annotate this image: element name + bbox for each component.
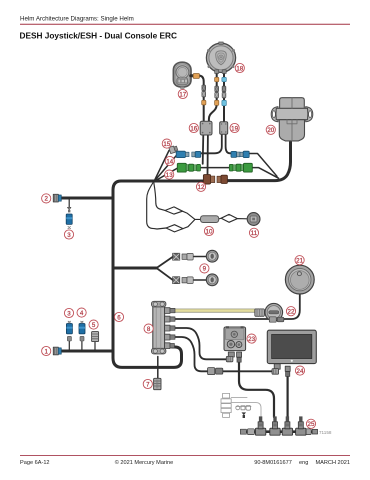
speaker upper connector pieces <box>173 253 194 260</box>
wire fuse 4 lower drop <box>81 342 83 352</box>
trackpad right cable inline connector <box>222 86 226 98</box>
svg-text:16: 16 <box>190 125 197 132</box>
wire splitter 16 bottom leads <box>203 135 208 175</box>
speaker lower connector pieces <box>173 277 194 284</box>
blue connector pair left (row 14) <box>176 151 201 157</box>
svg-text:24: 24 <box>297 368 304 375</box>
callout 12 <box>196 182 205 191</box>
wire branch to speakers <box>113 267 157 270</box>
trackpad left cable orange band lower <box>215 100 219 105</box>
wire thin loop A to diamond 1 <box>154 183 165 211</box>
svg-text:22: 22 <box>288 309 295 316</box>
joystick 17 <box>173 62 191 88</box>
gauge 21 <box>285 265 314 294</box>
junction box port 1 <box>165 308 175 314</box>
connector 5 <box>92 332 99 342</box>
wire yellow network cable <box>175 309 256 313</box>
junction box port 3 <box>165 325 175 331</box>
wire thin loop B to diamond 2 <box>147 183 166 229</box>
resistor 10 <box>201 216 219 223</box>
splitter 16 <box>200 121 212 135</box>
svg-text:8: 8 <box>147 326 151 333</box>
svg-text:3: 3 <box>67 310 71 317</box>
wire fuse 3 lower drop <box>68 342 70 352</box>
trackpad right cable blue band lower <box>222 100 226 105</box>
svg-text:20: 20 <box>267 127 274 134</box>
callout 19 <box>230 123 239 132</box>
tee T4 <box>296 416 306 435</box>
callout 24 <box>295 366 304 375</box>
wire junction diagonal to connector 15 <box>154 151 169 182</box>
brown connector pair 12 <box>203 175 227 184</box>
wire diamond 1 coil <box>165 207 183 214</box>
wire splitter 19 right lead to blue male <box>226 134 232 154</box>
footer copyright <box>115 459 174 466</box>
tee T3 <box>282 416 292 435</box>
svg-text:18: 18 <box>236 65 243 72</box>
wire splitter 19 left lead to blue male <box>201 134 222 154</box>
header small text <box>20 16 134 23</box>
footer page number <box>20 460 50 466</box>
wire joystick lead down to splitter 16 <box>199 76 204 122</box>
display 24 <box>267 330 316 363</box>
accessory dark plug <box>242 412 247 418</box>
wire module 23 drop to tee T2 <box>239 362 274 418</box>
green connector pair right (row 13) <box>229 163 252 172</box>
callout 23 <box>247 334 256 343</box>
callout 7 <box>143 379 152 388</box>
callout 4 <box>77 308 86 317</box>
connector 15 <box>169 145 178 153</box>
control module 23 <box>224 326 246 350</box>
wire from connector 1 <box>61 350 112 353</box>
svg-text:Page 6A-12: Page 6A-12 <box>20 460 50 466</box>
steering actuator 20 <box>271 98 313 141</box>
joystick cable orange band <box>202 100 206 105</box>
svg-text:23: 23 <box>248 336 255 343</box>
callout 15 <box>162 139 171 148</box>
wire speaker lower lead <box>193 279 207 281</box>
backbone right terminator <box>305 429 318 435</box>
wire junction diagonal to green row 13 <box>154 168 178 182</box>
accessory block near backbone <box>221 393 231 417</box>
callout 11 <box>249 228 258 237</box>
accessory small fittings <box>236 405 251 410</box>
NMEA backbone bus <box>243 430 316 433</box>
elbow connector under module 23 <box>226 352 234 362</box>
trackpad left cable orange band upper <box>215 77 219 81</box>
drop connector under module 23 <box>237 352 242 362</box>
yellow cable end connector <box>255 309 265 316</box>
backbone part number <box>319 430 332 435</box>
svg-text:12: 12 <box>198 184 205 191</box>
connector 7 <box>154 378 161 389</box>
callout 25 <box>306 419 315 428</box>
header rule <box>20 24 350 25</box>
round connector 22 <box>265 303 283 321</box>
wire speaker upper diagonal <box>157 257 173 268</box>
wire junction box port 3 to elbow of module 23 <box>175 328 227 359</box>
wire junction box port 4 to elbow of display 24 <box>175 337 273 371</box>
callout 8 <box>144 324 153 333</box>
svg-text:10: 10 <box>206 228 213 235</box>
wire trackpad left lead to splitter 16 <box>209 72 217 122</box>
callout 5 <box>89 320 98 329</box>
wire speaker lower diagonal <box>157 268 173 280</box>
callout 22 <box>286 307 295 316</box>
svg-text:19: 19 <box>231 125 238 132</box>
fuse holder arrow above fuse 3 upper <box>67 207 71 212</box>
inline connector pair on display feed wire <box>208 368 223 375</box>
joystick ferrule <box>191 74 200 79</box>
wire junction box port 2 to gauge 21 <box>175 294 300 320</box>
svg-text:3: 3 <box>67 232 71 239</box>
blue connector pair right (row 14) <box>231 151 249 157</box>
svg-text:14: 14 <box>166 158 173 165</box>
svg-text:6: 6 <box>117 314 121 321</box>
svg-text:4: 4 <box>80 310 84 317</box>
svg-text:7: 7 <box>146 381 150 388</box>
callout 9 <box>200 264 209 273</box>
svg-text:90-8M0161677 eng MARCH 2021: 90-8M0161677 eng MARCH 2021 <box>254 460 350 466</box>
green connector pair left (row 13) <box>177 163 200 172</box>
svg-text:21: 21 <box>296 258 303 265</box>
svg-text:9: 9 <box>203 266 207 273</box>
svg-text:71158: 71158 <box>319 430 332 435</box>
connector 2 <box>53 194 61 202</box>
gauge wire inline connector pair <box>269 317 284 322</box>
wire trackpad right lead to splitter 19 <box>223 72 225 122</box>
joystick cable inline connector <box>202 85 206 97</box>
accessory light wires <box>231 398 261 417</box>
wire harness right segment to pump <box>227 141 291 181</box>
wire Y join into resistor 10 <box>183 211 202 228</box>
callout 3 lower <box>64 308 73 317</box>
splitter 19 <box>220 122 228 135</box>
svg-text:© 2021 Mercury Marine: © 2021 Mercury Marine <box>115 459 174 466</box>
callout 1 <box>42 346 51 355</box>
callout 6 <box>114 312 123 321</box>
callout 16 <box>189 123 198 132</box>
elbow connector under display 24 <box>272 364 280 374</box>
svg-text:DESH Joystick/ESH - Dual Conso: DESH Joystick/ESH - Dual Console ERC <box>20 31 177 41</box>
trackpad left cable inline connector <box>215 86 219 98</box>
fuse 3 lower <box>66 321 72 341</box>
wire from connector 2 <box>61 197 112 200</box>
wire diamond 3 coil after 10 <box>219 214 248 222</box>
svg-text:15: 15 <box>163 141 170 148</box>
wire junction box bottom to connector 7 <box>157 357 159 379</box>
callout 14 <box>165 156 174 165</box>
fuse 3 upper <box>66 214 72 229</box>
callout 2 <box>42 194 51 203</box>
wire diamond 2 coil <box>166 225 183 232</box>
backbone left terminator <box>240 429 254 435</box>
svg-text:1: 1 <box>44 348 48 355</box>
tee T2 <box>270 416 280 435</box>
wire green row right tail <box>252 168 279 179</box>
svg-text:13: 13 <box>166 172 173 179</box>
junction box 8 <box>152 301 166 354</box>
callout 3 upper <box>64 230 73 239</box>
footer rule <box>20 454 350 457</box>
svg-text:17: 17 <box>179 91 186 98</box>
tee T1 <box>255 416 265 435</box>
speaker 9 lower <box>206 274 218 286</box>
wire green row middle <box>201 167 230 169</box>
wire speaker upper lead <box>193 256 207 258</box>
title <box>20 31 177 41</box>
speaker 9 upper <box>206 250 218 262</box>
trackpad 18 <box>206 42 235 73</box>
connector 1 <box>53 347 61 355</box>
wire junction diagonal to blue row 14 <box>154 155 177 182</box>
svg-text:5: 5 <box>92 322 96 329</box>
wire connector 5 drop <box>94 342 96 352</box>
junction box port 5 <box>165 343 175 349</box>
svg-text:25: 25 <box>308 421 315 428</box>
terminator 11 <box>247 213 260 226</box>
drop connector under display 24 <box>285 366 290 376</box>
fuse 4 lower <box>79 321 85 341</box>
svg-text:Helm Architecture Diagrams: Si: Helm Architecture Diagrams: Single Helm <box>20 16 134 23</box>
wire display 24 drop to tee T3 <box>287 376 289 417</box>
junction box port 4 <box>165 334 175 340</box>
callout 17 <box>178 89 187 98</box>
wire main harness loop <box>113 181 204 367</box>
trackpad right cable blue band upper <box>222 77 226 81</box>
svg-text:2: 2 <box>44 196 48 203</box>
footer document number <box>254 460 350 466</box>
callout 10 <box>204 226 213 235</box>
junction box port 2 <box>165 316 175 322</box>
wire blue row middle and right tail <box>249 154 278 177</box>
callout 18 <box>235 63 244 72</box>
wire fuse 3 upper drop <box>68 198 70 207</box>
callout 20 <box>266 125 275 134</box>
callout 13 <box>165 170 174 179</box>
callout 21 <box>295 256 304 265</box>
svg-text:11: 11 <box>251 230 258 237</box>
